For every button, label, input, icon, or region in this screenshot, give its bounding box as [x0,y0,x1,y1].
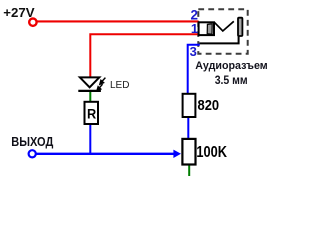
svg-text:100K: 100K [196,144,227,161]
svg-text:ВЫХОД: ВЫХОД [11,135,53,149]
svg-text:3.5 мм: 3.5 мм [215,73,248,87]
svg-text:LED: LED [110,80,129,91]
svg-text:Аудиоразъем: Аудиоразъем [195,60,268,72]
svg-text:+27V: +27V [3,5,34,20]
svg-text:3: 3 [190,44,197,59]
svg-text:1: 1 [191,21,198,36]
svg-text:820: 820 [198,98,220,114]
svg-text:R: R [87,107,96,123]
